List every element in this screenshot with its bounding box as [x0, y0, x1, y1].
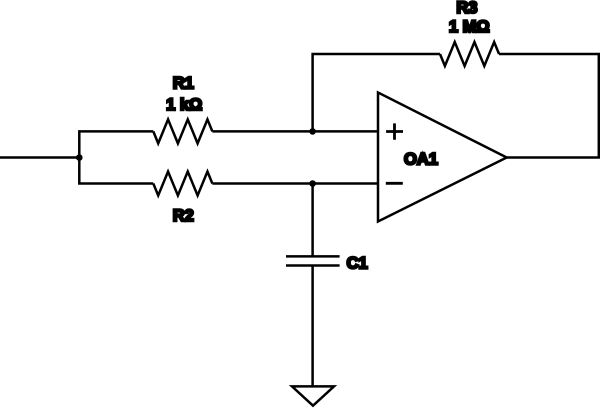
- capacitor C1: [286, 256, 340, 265]
- resistor R3: [440, 42, 499, 66]
- wire input left: [0, 156, 79, 159]
- node minus-input junction: [309, 180, 316, 187]
- svg-text:R1: R1: [173, 75, 194, 93]
- wire R2 right lead to op-amp: [212, 182, 378, 185]
- wire R1 right lead to op-amp: [212, 130, 378, 133]
- op-amp minus pin mark: [386, 182, 403, 185]
- svg-text:1 MΩ: 1 MΩ: [449, 18, 490, 36]
- op-amp plus pin mark: [386, 123, 403, 139]
- svg-text:C1: C1: [347, 255, 368, 273]
- wire capacitor top lead: [311, 184, 314, 257]
- node plus-input junction: [309, 128, 316, 135]
- resistor R2: [153, 172, 212, 196]
- wire feedback vertical left + top left: [313, 54, 440, 131]
- node input junction: [76, 154, 83, 161]
- ground: [292, 386, 334, 405]
- wire capacitor bottom lead: [311, 266, 314, 387]
- wire input branch vertical + R1 left lead + R2 left lead: [79, 131, 153, 183]
- svg-text:OA1: OA1: [404, 151, 438, 169]
- svg-text:R2: R2: [173, 207, 194, 225]
- op-amp OA1: [378, 93, 507, 222]
- svg-text:R3: R3: [456, 0, 477, 17]
- wire feedback top right + vertical right + output: [499, 54, 599, 158]
- svg-text:1 kΩ: 1 kΩ: [166, 96, 202, 114]
- resistor R1: [153, 119, 212, 143]
